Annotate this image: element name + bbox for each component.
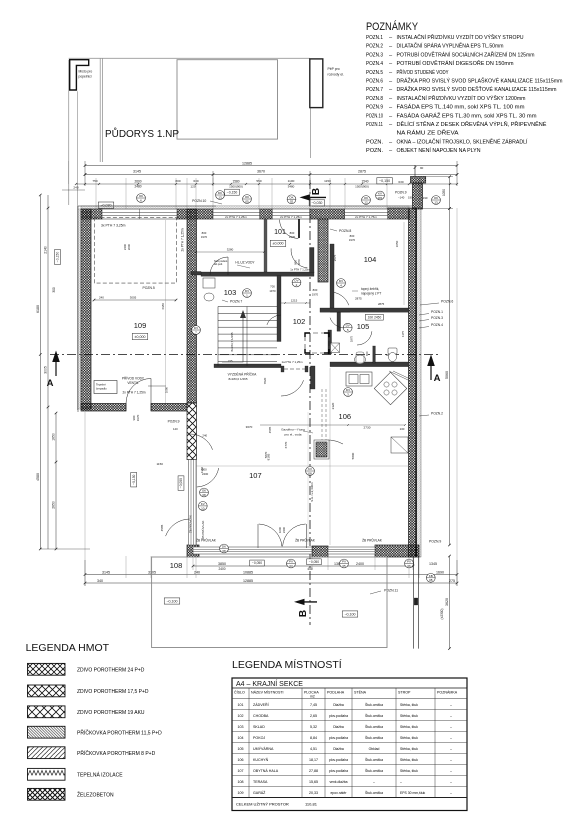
svg-text:08: 08	[308, 471, 312, 475]
svg-text:pro el., voda: pro el., voda	[284, 433, 301, 437]
svg-text:3005: 3005	[130, 296, 137, 300]
svg-text:HL.UZ.VODY: HL.UZ.VODY	[235, 261, 255, 265]
svg-text:800: 800	[175, 179, 180, 183]
svg-text:ŽB PRŮVLAK: ŽB PRŮVLAK	[196, 538, 217, 543]
svg-text:FASÁDA GARÁŽ EPS TL.30 mm, sok: FASÁDA GARÁŽ EPS TL.30 mm, sokl XPS TL. …	[397, 111, 537, 119]
svg-text:3850: 3850	[218, 562, 226, 566]
svg-text:KV: KV	[378, 192, 382, 196]
svg-text:2875: 2875	[355, 297, 362, 301]
svg-text:3670: 3670	[257, 170, 265, 174]
svg-text:105: 105	[357, 322, 370, 331]
svg-text:DRÁŽKA PRO SVISLÝ SVOD SPLAŠKO: DRÁŽKA PRO SVISLÝ SVOD SPLAŠKOVÉ KANALIZ…	[397, 77, 563, 85]
svg-text:300: 300	[52, 287, 56, 293]
svg-text:05: 05	[245, 199, 249, 203]
svg-text:3145: 3145	[102, 570, 110, 574]
svg-text:OK: OK	[434, 196, 438, 200]
svg-text:DILATAČNÍ SPÁRA VYPLNĚNA EPS T: DILATAČNÍ SPÁRA VYPLNĚNA EPS TL.50mm	[397, 42, 504, 50]
svg-text:5800: 5800	[351, 452, 355, 459]
svg-text:plov.podlaha: plov.podlaha	[329, 758, 348, 762]
svg-text:Štuk.omítka: Štuk.omítka	[365, 735, 383, 740]
svg-text:275: 275	[449, 579, 455, 583]
svg-text:2x PTH 7 1,25m: 2x PTH 7 1,25m	[181, 228, 185, 251]
svg-text:PěP pro: PěP pro	[328, 67, 340, 71]
svg-text:POZN.7: POZN.7	[230, 300, 242, 304]
svg-text:POZN.2: POZN.2	[431, 412, 443, 416]
svg-text:m2: m2	[310, 694, 315, 698]
svg-text:POZN.9: POZN.9	[395, 191, 407, 195]
svg-text:ŽB PRŮVLAK: ŽB PRŮVLAK	[295, 538, 316, 543]
svg-text:2600: 2600	[134, 180, 141, 184]
svg-text:POZN.1: POZN.1	[366, 35, 383, 41]
svg-text:103: 103	[238, 725, 244, 729]
svg-text:06: 06	[407, 564, 411, 568]
svg-text:ZÁDVEŘÍ: ZÁDVEŘÍ	[253, 702, 269, 707]
svg-text:A: A	[47, 378, 54, 389]
svg-text:DV: DV	[346, 324, 350, 328]
svg-text:DK: DK	[222, 545, 226, 549]
svg-text:OBYTNÁ HALA: OBYTNÁ HALA	[253, 769, 279, 773]
svg-text:–: –	[450, 791, 452, 795]
svg-text:POTRUBÍ ODVĚTRÁNÍ DIGESOŘE DN: POTRUBÍ ODVĚTRÁNÍ DIGESOŘE DN 150mm	[397, 59, 514, 67]
svg-text:Místo pro: Místo pro	[79, 70, 93, 74]
svg-text:130: 130	[400, 427, 405, 431]
svg-text:1500(900): 1500(900)	[229, 184, 243, 188]
svg-text:02: 02	[290, 200, 294, 204]
svg-text:ŽELEZOBETON: ŽELEZOBETON	[77, 790, 114, 798]
svg-text:12: 12	[364, 200, 368, 204]
svg-text:POTRUBÍ ODVĚTRÁNÍ SOCIÁLNÍCH Z: POTRUBÍ ODVĚTRÁNÍ SOCIÁLNÍCH ZAŘÍZENÍ DN…	[397, 50, 535, 58]
svg-text:napojený z PT: napojený z PT	[361, 292, 381, 296]
svg-text:ZDIVO POROTHERM 19 AKU: ZDIVO POROTHERM 19 AKU	[77, 710, 145, 716]
svg-text:3145: 3145	[133, 170, 141, 174]
svg-text:–: –	[450, 736, 452, 740]
svg-text:Dlažba: Dlažba	[333, 703, 344, 707]
svg-text:STROP: STROP	[398, 691, 411, 695]
svg-text:10: 10	[201, 506, 205, 510]
svg-text:(±2300): (±2300)	[440, 609, 444, 620]
svg-text:6180: 6180	[161, 303, 165, 310]
svg-text:4,51: 4,51	[310, 747, 317, 751]
svg-text:UMÝVÁRNA: UMÝVÁRNA	[253, 747, 274, 751]
svg-text:08: 08	[222, 549, 226, 553]
svg-text:DK: DK	[289, 195, 293, 199]
svg-text:2140: 2140	[44, 246, 48, 254]
svg-text:109: 109	[238, 791, 244, 795]
svg-text:105: 105	[238, 747, 244, 751]
svg-text:3620: 3620	[445, 598, 449, 606]
svg-text:PŮDORYS 1.NP: PŮDORYS 1.NP	[105, 127, 179, 140]
svg-text:NA RÁMU ZE DŘEVA: NA RÁMU ZE DŘEVA	[397, 129, 459, 137]
svg-text:±0,000: ±0,000	[135, 335, 146, 339]
svg-text:OK: OK	[202, 489, 206, 493]
svg-text:POZN.5: POZN.5	[142, 286, 154, 290]
svg-text:Gazděno—Ytong: Gazděno—Ytong	[281, 428, 305, 432]
svg-text:−0,050: −0,050	[309, 560, 319, 564]
svg-text:TEPELNÁ IZOLACE: TEPELNÁ IZOLACE	[77, 771, 123, 778]
svg-text:B: B	[311, 188, 322, 195]
svg-text:−0,050: −0,050	[179, 478, 183, 488]
svg-text:20,33: 20,33	[309, 791, 318, 795]
svg-text:2875: 2875	[358, 170, 366, 174]
svg-text:Dlažba: Dlažba	[333, 747, 344, 751]
svg-text:4580: 4580	[36, 473, 40, 481]
svg-text:−0,050: −0,050	[252, 561, 262, 565]
svg-text:2400: 2400	[202, 472, 209, 476]
svg-text:6180: 6180	[36, 305, 40, 313]
svg-text:plov.podlaha: plov.podlaha	[329, 736, 348, 740]
svg-text:1540: 1540	[361, 180, 368, 184]
svg-text:POZN.4: POZN.4	[366, 61, 383, 67]
svg-text:1970: 1970	[201, 235, 208, 239]
svg-text:POZNÁMKY: POZNÁMKY	[366, 20, 419, 33]
svg-text:POZN.11: POZN.11	[384, 589, 398, 593]
svg-text:90: 90	[420, 166, 424, 170]
svg-text:DV: DV	[194, 326, 198, 330]
svg-text:3x PTH 7 3,25m: 3x PTH 7 3,25m	[101, 224, 126, 228]
svg-text:POZN.1: POZN.1	[431, 310, 443, 314]
svg-text:630: 630	[398, 180, 403, 184]
svg-text:108: 108	[170, 561, 183, 570]
svg-text:1970: 1970	[136, 414, 140, 421]
svg-text:±0,000: ±0,000	[273, 242, 284, 246]
svg-text:800: 800	[202, 468, 207, 472]
svg-text:PV: PV	[289, 560, 293, 564]
svg-text:1100: 1100	[288, 179, 295, 183]
svg-text:−0,150: −0,150	[379, 179, 390, 183]
svg-text:–: –	[400, 780, 402, 784]
svg-text:POZN.3: POZN.3	[366, 52, 383, 58]
svg-text:POZN.: POZN.	[366, 139, 383, 145]
svg-text:Štuk.omítka: Štuk.omítka	[365, 757, 383, 762]
svg-text:–: –	[450, 758, 452, 762]
svg-text:OKNA – IZOLAČNÍ TROJSKLO, SKLE: OKNA – IZOLAČNÍ TROJSKLO, SKLENĚNÉ ZÁBRA…	[397, 137, 528, 145]
svg-text:POZN.: POZN.	[366, 148, 383, 154]
svg-text:Stěrka, štuk: Stěrka, štuk	[400, 747, 418, 751]
svg-text:3480: 3480	[288, 184, 295, 188]
svg-text:−0,150: −0,150	[132, 474, 136, 484]
svg-text:1970: 1970	[297, 259, 301, 265]
svg-text:Štuk.omítka: Štuk.omítka	[365, 790, 383, 795]
svg-text:1150: 1150	[156, 462, 163, 466]
svg-text:7,45: 7,45	[310, 703, 317, 707]
svg-text:10885: 10885	[243, 570, 253, 574]
svg-text:SKLAD: SKLAD	[253, 725, 265, 729]
svg-text:12885: 12885	[243, 579, 253, 583]
svg-text:2400: 2400	[356, 562, 364, 566]
svg-text:Stěrka, štuk: Stěrka, štuk	[400, 758, 418, 762]
svg-text:181: 181	[377, 196, 382, 200]
svg-text:ŽB PRŮVLAK: ŽB PRŮVLAK	[188, 515, 193, 533]
svg-text:1345: 1345	[429, 562, 437, 566]
svg-text:PV: PV	[342, 560, 346, 564]
svg-text:OBJEKT NENÍ NAPOJEN NA PLYN: OBJEKT NENÍ NAPOJEN NA PLYN	[397, 147, 481, 154]
svg-text:Stěrka, štuk: Stěrka, štuk	[400, 736, 418, 740]
svg-text:DRÁŽKA PRO SVISLÝ SVOD DEŠŤOVÉ: DRÁŽKA PRO SVISLÝ SVOD DEŠŤOVÉ KANALIZAC…	[397, 85, 557, 93]
svg-text:POZN.10: POZN.10	[366, 113, 383, 119]
svg-text:POZN.2: POZN.2	[366, 44, 383, 50]
svg-text:08: 08	[202, 493, 206, 497]
svg-text:2400: 2400	[282, 526, 286, 533]
svg-text:1090: 1090	[165, 386, 169, 393]
svg-text:103: 103	[224, 288, 237, 297]
svg-text:190: 190	[408, 196, 413, 200]
svg-text:101: 101	[238, 703, 244, 707]
svg-text:1970: 1970	[349, 238, 356, 242]
svg-text:600: 600	[365, 351, 369, 356]
svg-text:−0,030: −0,030	[311, 201, 322, 205]
svg-text:102: 102	[238, 714, 244, 718]
svg-text:–: –	[450, 769, 452, 773]
svg-text:ČÍSLO: ČÍSLO	[234, 690, 245, 695]
svg-text:venk.dlažba: venk.dlažba	[329, 780, 347, 784]
svg-text:–: –	[450, 703, 452, 707]
svg-text:1500(900): 1500(900)	[355, 184, 369, 188]
svg-text:1970: 1970	[269, 289, 276, 293]
svg-text:6770: 6770	[284, 441, 288, 448]
svg-text:240: 240	[73, 186, 78, 190]
svg-text:POZN.7: POZN.7	[366, 87, 383, 93]
svg-text:DĚLÍCÍ STĚNA Z DESEK DŘEVĚNÁ V: DĚLÍCÍ STĚNA Z DESEK DŘEVĚNÁ VÝPLŇ, PŘIP…	[397, 120, 547, 128]
svg-text:340: 340	[97, 579, 103, 583]
svg-text:NÁZEV MÍSTNOSTI: NÁZEV MÍSTNOSTI	[251, 691, 284, 695]
svg-text:8185: 8185	[267, 453, 271, 460]
svg-text:plov.podlaha: plov.podlaha	[329, 769, 348, 773]
svg-text:3005: 3005	[44, 366, 48, 374]
svg-text:Štuk.omítka: Štuk.omítka	[365, 702, 383, 707]
svg-text:101: 101	[274, 229, 286, 236]
svg-text:08: 08	[429, 578, 433, 582]
svg-text:DK: DK	[218, 191, 222, 195]
svg-text:104: 104	[238, 736, 244, 740]
svg-text:106: 106	[339, 412, 352, 421]
svg-text:3670: 3670	[246, 425, 253, 429]
svg-text:POZN.9: POZN.9	[168, 420, 180, 424]
svg-text:2x PTH 7 1,25m: 2x PTH 7 1,25m	[280, 215, 302, 219]
svg-text:–: –	[450, 747, 452, 751]
svg-text:DV: DV	[245, 289, 249, 293]
svg-text:18,17: 18,17	[309, 758, 318, 762]
svg-text:PV: PV	[407, 560, 411, 564]
svg-text:PODLAHA: PODLAHA	[327, 691, 345, 695]
svg-text:1650: 1650	[52, 433, 56, 441]
svg-text:4585: 4585	[160, 524, 164, 531]
svg-text:rozvody el.: rozvody el.	[328, 73, 344, 77]
svg-text:popelnici: popelnici	[79, 75, 92, 79]
svg-text:108: 108	[238, 780, 244, 784]
svg-text:03: 03	[289, 564, 293, 568]
svg-text:POZN.9: POZN.9	[429, 540, 441, 544]
svg-text:KB: KB	[429, 574, 433, 578]
svg-text:–: –	[450, 714, 452, 718]
svg-text:POZN.8: POZN.8	[339, 229, 351, 233]
svg-text:240: 240	[99, 296, 104, 300]
svg-text:–: –	[450, 780, 452, 784]
svg-text:POZN.9: POZN.9	[366, 105, 383, 111]
svg-text:POZN.6: POZN.6	[366, 79, 383, 85]
svg-text:PŘÍVOD VODY: PŘÍVOD VODY	[122, 376, 145, 381]
svg-text:Stěrka, štuk: Stěrka, štuk	[400, 725, 418, 729]
svg-text:1580: 1580	[232, 180, 239, 184]
svg-text:190: 190	[423, 196, 428, 200]
svg-text:2320: 2320	[331, 402, 335, 409]
svg-text:240: 240	[194, 570, 200, 574]
svg-text:107: 107	[238, 769, 244, 773]
svg-text:12885: 12885	[242, 161, 252, 165]
svg-text:−0,150: −0,150	[227, 190, 238, 194]
svg-text:15,65: 15,65	[309, 780, 318, 784]
svg-text:1175: 1175	[401, 331, 405, 337]
svg-text:ŽB PRŮVLAK: ŽB PRŮVLAK	[362, 538, 383, 543]
svg-text:PŘÍČKOVKA POROTHERM 8 P+D: PŘÍČKOVKA POROTHERM 8 P+D	[77, 749, 156, 757]
svg-text:2x PTH 7 1,25m: 2x PTH 7 1,25m	[225, 215, 247, 219]
svg-text:Štuk.omítka: Štuk.omítka	[365, 768, 383, 773]
svg-text:750: 750	[92, 179, 97, 183]
svg-text:3280: 3280	[227, 248, 234, 252]
svg-text:OK: OK	[364, 196, 368, 200]
svg-text:2730: 2730	[364, 425, 371, 429]
svg-text:13: 13	[434, 200, 438, 204]
svg-text:POZN.5: POZN.5	[366, 70, 383, 76]
svg-text:2,65: 2,65	[310, 714, 317, 718]
svg-text:POZN.10: POZN.10	[192, 199, 206, 203]
svg-text:INSTALAČNÍ PŘIZDÍVKU VYZDÍT DO: INSTALAČNÍ PŘIZDÍVKU VYZDÍT DO VÝŠKY STR…	[397, 33, 524, 41]
svg-text:VENTIL: VENTIL	[127, 381, 138, 385]
svg-text:4585: 4585	[268, 426, 272, 433]
svg-text:900: 900	[294, 260, 298, 265]
svg-text:KUCHYŇ: KUCHYŇ	[253, 758, 269, 762]
svg-text:INSTALAČNÍ PŘIZDÍVKU VYZDÍT DO: INSTALAČNÍ PŘIZDÍVKU VYZDÍT DO VÝŠKY 120…	[397, 94, 526, 102]
svg-text:106: 106	[238, 758, 244, 762]
svg-text:topný žebřík,: topný žebřík,	[361, 287, 379, 291]
svg-text:KV: KV	[308, 467, 312, 471]
svg-text:140: 140	[173, 427, 178, 431]
svg-text:POZN.8: POZN.8	[366, 96, 383, 102]
svg-text:5060: 5060	[445, 371, 449, 379]
svg-text:−0,100: −0,100	[166, 599, 177, 603]
svg-text:−0,150: −0,150	[56, 252, 60, 263]
svg-text:POZN.4: POZN.4	[431, 323, 443, 327]
svg-text:LEGENDA HMOT: LEGENDA HMOT	[26, 642, 110, 654]
svg-text:POZNÁMKA: POZNÁMKA	[437, 691, 458, 695]
svg-text:DV: DV	[346, 388, 350, 392]
svg-text:ZDIVO POROTHERM 17,5 P+D: ZDIVO POROTHERM 17,5 P+D	[77, 689, 149, 695]
svg-text:CHODBA: CHODBA	[253, 714, 269, 718]
svg-text:GARÁŽ: GARÁŽ	[253, 790, 266, 795]
svg-text:POZN.3: POZN.3	[431, 316, 443, 320]
svg-text:2600: 2600	[127, 243, 131, 250]
svg-text:čerpadlo: čerpadlo	[96, 387, 107, 391]
svg-text:8x183,7 1/265: 8x183,7 1/265	[230, 332, 234, 351]
svg-text:240: 240	[202, 434, 207, 438]
svg-text:S.H.=+2,430m: S.H.=+2,430m	[310, 482, 314, 502]
svg-text:OK: OK	[139, 194, 143, 198]
svg-text:epox.nátěr: epox.nátěr	[330, 791, 347, 795]
svg-text:Stěrka, štuk: Stěrka, štuk	[400, 714, 418, 718]
svg-text:DV: DV	[294, 279, 298, 283]
svg-text:107: 107	[249, 471, 262, 480]
svg-text:120: 120	[190, 184, 195, 188]
svg-text:1690: 1690	[436, 570, 444, 574]
svg-text:1215: 1215	[291, 299, 298, 303]
svg-text:Dlažba: Dlažba	[333, 725, 344, 729]
svg-text:102: 102	[293, 317, 306, 326]
svg-text:7020: 7020	[263, 377, 267, 384]
svg-text:skl.pod.: skl.pod.	[214, 262, 223, 266]
svg-text:2x PTH 7 1,25m: 2x PTH 7 1,25m	[122, 391, 145, 395]
svg-text:FASÁDA EPS TL.140 mm, sokl XPS: FASÁDA EPS TL.140 mm, sokl XPS TL. 100 m…	[397, 104, 525, 111]
svg-text:2x PTH 7 1,75m: 2x PTH 7 1,75m	[355, 215, 377, 219]
svg-text:Stěrka, štuk: Stěrka, štuk	[400, 703, 418, 707]
svg-text:−140: −140	[398, 196, 405, 200]
svg-text:110,81: 110,81	[305, 802, 318, 807]
svg-text:10K 2450: 10K 2450	[368, 315, 382, 319]
svg-text:PŘÍČKOVKA POROTHERM 11,5 P+D: PŘÍČKOVKA POROTHERM 11,5 P+D	[77, 728, 162, 736]
svg-text:ŽB PRŮVLAK: ŽB PRŮVLAK	[200, 521, 205, 540]
svg-text:POZN.6: POZN.6	[441, 300, 453, 304]
svg-text:PŘÍVOD STUDENÉ VODY: PŘÍVOD STUDENÉ VODY	[397, 68, 449, 76]
svg-text:STĚNA: STĚNA	[354, 690, 367, 695]
svg-text:VYZDĚNÁ PŘÍČKA: VYZDĚNÁ PŘÍČKA	[228, 372, 258, 377]
svg-text:1875: 1875	[350, 335, 354, 342]
svg-text:−0,100: −0,100	[344, 612, 355, 616]
svg-text:A4 – KRAJNÍ SEKCE: A4 – KRAJNÍ SEKCE	[236, 679, 303, 688]
svg-text:109: 109	[134, 321, 147, 330]
svg-text:ZDIVO POROTHERM 24 P+D: ZDIVO POROTHERM 24 P+D	[77, 667, 145, 673]
svg-text:Štuk.omítka: Štuk.omítka	[365, 724, 383, 729]
svg-text:LEGENDA MÍSTNOSTÍ: LEGENDA MÍSTNOSTÍ	[232, 658, 342, 671]
svg-text:27,88: 27,88	[309, 769, 318, 773]
svg-text:B: B	[298, 610, 309, 617]
svg-text:1050: 1050	[442, 189, 446, 196]
svg-text:1970: 1970	[312, 293, 319, 297]
svg-text:plov.podlaha: plov.podlaha	[329, 714, 348, 718]
svg-text:2480: 2480	[134, 184, 141, 188]
svg-text:2650: 2650	[52, 501, 56, 509]
svg-text:KV: KV	[201, 502, 205, 506]
svg-text:Obklad: Obklad	[369, 747, 380, 751]
svg-text:–: –	[450, 725, 452, 729]
svg-text:POKOJ: POKOJ	[253, 736, 265, 740]
svg-text:–: –	[373, 780, 375, 784]
svg-text:TERASA: TERASA	[253, 780, 268, 784]
svg-text:05: 05	[342, 564, 346, 568]
svg-text:A: A	[434, 373, 441, 384]
svg-text:Stěrka, štuk: Stěrka, štuk	[400, 769, 418, 773]
svg-text:1a PTH 7 1,25m: 1a PTH 7 1,25m	[281, 360, 303, 364]
svg-text:725: 725	[228, 359, 233, 363]
svg-text:1x PTH 7 1,25m: 1x PTH 7 1,25m	[290, 267, 310, 271]
svg-text:2875: 2875	[378, 302, 385, 306]
svg-text:8,84: 8,84	[310, 736, 317, 740]
svg-text:Štuk.omítka: Štuk.omítka	[365, 713, 383, 718]
svg-text:8x183,0 1/265: 8x183,0 1/265	[228, 377, 247, 381]
svg-text:EPS 30 mm,štuk: EPS 30 mm,štuk	[400, 791, 426, 795]
svg-text:2400: 2400	[218, 567, 225, 571]
svg-text:5,32: 5,32	[310, 725, 317, 729]
svg-text:13: 13	[218, 195, 222, 199]
svg-text:3650: 3650	[395, 240, 399, 247]
svg-text:104: 104	[364, 255, 377, 264]
svg-text:POZN.11: POZN.11	[366, 122, 383, 128]
svg-text:OK: OK	[245, 195, 249, 199]
svg-text:1970: 1970	[289, 235, 296, 239]
svg-text:800: 800	[313, 288, 318, 292]
svg-text:CELKEM UŽITNÝ PROSTOR: CELKEM UŽITNÝ PROSTOR	[236, 802, 289, 807]
svg-text:DV: DV	[339, 279, 343, 283]
